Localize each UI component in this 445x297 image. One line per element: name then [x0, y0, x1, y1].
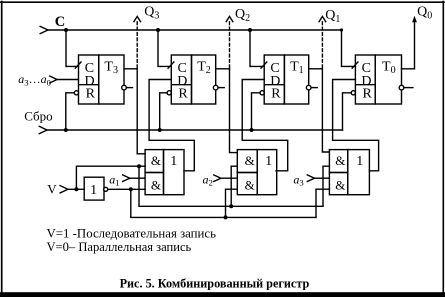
node: clock tap T1 — [248, 28, 252, 32]
wire: block 1 OR output to T2 D — [149, 80, 194, 171]
svg-text:&: & — [335, 178, 345, 193]
wire: V into block 1 — [139, 165, 145, 167]
node: V distribution branch — [137, 164, 141, 168]
svg-text:1: 1 — [170, 154, 177, 169]
svg-text:R: R — [363, 87, 373, 102]
flip-flop T0 — [351, 55, 413, 104]
wire: T2 output to node Q2 — [216, 68, 230, 70]
wire: notV riser stage 2 — [226, 189, 237, 217]
svg-text:V=1 -Последовательная запись: V=1 -Последовательная запись — [47, 227, 217, 241]
svg-text:&: & — [245, 153, 255, 168]
svg-text:Сбро: Сбро — [24, 108, 52, 123]
node: V tap stage 2 — [229, 204, 233, 208]
node: reset tap T3 — [64, 128, 68, 132]
wire: clock to T1 — [250, 30, 264, 66]
node: clock corner T0 — [340, 28, 343, 31]
svg-text:V=0– Параллельная запись: V=0– Параллельная запись — [47, 240, 192, 254]
AND-OR gate block 1 — [145, 150, 184, 195]
AND-OR gate block 3 — [329, 150, 369, 195]
wire: T1 output to node Q1 — [309, 68, 323, 70]
wire: reset bus — [47, 129, 343, 131]
wire: reset to T2 R — [160, 93, 167, 130]
wire: V riser stage 3 — [323, 166, 329, 206]
input terminal Sbros (reset) — [39, 93, 351, 134]
svg-text:R: R — [86, 87, 96, 102]
wire: clock to T2 — [158, 30, 171, 66]
svg-text:R: R — [271, 87, 281, 102]
inverter (NOT gate) — [84, 177, 108, 200]
flip-flop T2 — [167, 55, 225, 104]
wire: Q3 descent to gate block 1 — [137, 69, 145, 154]
wire: reset to T1 R — [252, 93, 261, 130]
svg-text:&: & — [245, 178, 255, 193]
wire: Q3 dash-dot arrow — [136, 22, 138, 68]
svg-text:1: 1 — [90, 183, 97, 198]
svg-text:R: R — [178, 87, 188, 102]
wire: Q2 descent to gate block 2 — [230, 69, 237, 153]
wire: clock to T3 — [66, 30, 79, 66]
wire: Q1 dash-dot arrow — [321, 22, 323, 68]
svg-text:a3…a0: a3…a0 — [18, 72, 51, 87]
input terminal a1 — [122, 175, 145, 182]
wire: inverter output (notV) to block 1 — [108, 188, 145, 190]
node: notV tap stage 2 — [224, 215, 228, 219]
frame (decorative) — [0, 1, 444, 3]
wire: notV riser stage 3 — [316, 189, 329, 217]
svg-text:C: C — [55, 14, 65, 30]
input terminal a2 — [213, 175, 237, 182]
svg-text:&: & — [335, 153, 345, 168]
wire: clock to T0 — [342, 30, 356, 66]
svg-text:Рис. 5. Комбинированный регист: Рис. 5. Комбинированный регистр — [120, 277, 310, 291]
node: reset tap T2 — [158, 128, 162, 132]
wire: V distribution line — [139, 166, 323, 206]
wire: V riser to gate block 1 — [76, 166, 139, 189]
wire: notV distribution line — [131, 189, 316, 217]
node: V branch — [74, 187, 78, 191]
flip-flop T1 — [260, 55, 318, 104]
wire: V riser stage 2 — [231, 166, 237, 206]
svg-text:1: 1 — [356, 154, 363, 169]
svg-text:&: & — [151, 153, 161, 168]
wire: reset to T0 R — [343, 93, 352, 130]
wire: block 3 OR output to T0 D — [333, 80, 379, 171]
svg-text:1: 1 — [265, 154, 272, 169]
node: notV distribution branch — [129, 187, 133, 191]
node: clock tap T3 — [64, 28, 68, 32]
input terminal V — [60, 164, 329, 208]
wire: reset to T3 R — [66, 93, 75, 130]
node: reset tap T1 — [250, 128, 254, 132]
svg-text:&: & — [151, 178, 161, 193]
wire: V to inverter — [68, 188, 84, 190]
wire: block 2 OR output to T1 D — [242, 80, 288, 171]
wire: T0 output to Q0 arrow — [402, 21, 415, 69]
wire: Q2 dash-dot arrow — [229, 22, 231, 68]
wire: Q1 descent to gate block 3 — [322, 69, 329, 152]
flip-flop T3 — [74, 55, 133, 104]
wire: T3 output to node Q3 — [124, 68, 137, 70]
AND-OR gate block 2 — [237, 150, 276, 195]
input terminal a3...a0 — [49, 76, 78, 83]
input terminal C (clock) — [40, 26, 48, 33]
input terminal a3 — [307, 175, 330, 182]
svg-text:V: V — [47, 181, 57, 196]
wire: C clock bus — [48, 29, 342, 31]
node: clock tap T2 — [156, 28, 160, 32]
